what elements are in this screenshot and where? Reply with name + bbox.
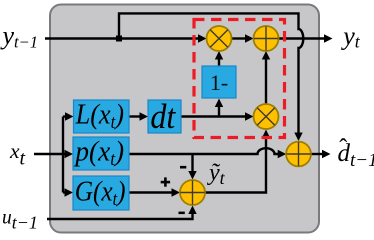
svg-text:xt: xt bbox=[9, 139, 26, 170]
svg-text:ut−1: ut−1 bbox=[2, 208, 38, 233]
svg-text:yt−1: yt−1 bbox=[0, 21, 38, 52]
svg-text:yt: yt bbox=[340, 22, 361, 52]
svg-text:dt: dt bbox=[150, 98, 176, 136]
svg-text:p(xt): p(xt) bbox=[73, 136, 124, 169]
svg-text:ˆ: ˆ bbox=[339, 136, 347, 162]
svg-text:L(xt): L(xt) bbox=[75, 97, 124, 132]
svg-text:G(xt): G(xt) bbox=[75, 175, 126, 209]
svg-text:1-: 1- bbox=[210, 70, 228, 95]
